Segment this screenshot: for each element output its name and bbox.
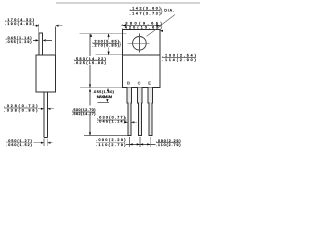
svg-text:.055(1.39): .055(1.39) (6, 40, 32, 44)
dim T1 arrows (35, 25, 63, 27)
vertical dimension line V2/V4 (89, 34, 92, 136)
dim T2 text .045/.055 (6, 36, 32, 44)
side view tab back extension line (54, 27, 56, 56)
svg-text:.270(6.85): .270(6.85) (92, 44, 119, 48)
mounting hole (133, 37, 147, 51)
width dim text (122, 22, 163, 32)
front view extension line A (top, to the left) (80, 33, 127, 35)
svg-text:MAXIMUM: MAXIMUM (97, 95, 112, 99)
dim maximum (93, 88, 114, 103)
dim T4 arrows and extensions (34, 139, 53, 146)
lead center extension lines (129, 137, 131, 147)
dim V2 text body height (74, 57, 106, 65)
front view body (123, 30, 160, 88)
dim V4 text lead length (72, 108, 96, 116)
dim T4 text at lead tip (6, 139, 32, 147)
lead tip extension line (84, 135, 128, 137)
side view tab (39, 33, 43, 55)
lead width dim (97, 116, 137, 124)
svg-text:.060(1.52): .060(1.52) (6, 143, 32, 147)
side view front extension line (38, 24, 40, 33)
hole crosshairs (127, 42, 149, 44)
svg-text:C: C (138, 80, 141, 85)
svg-text:.055(1.40): .055(1.40) (93, 90, 114, 94)
svg-text:E: E (148, 80, 151, 85)
pitch dim line (126, 143, 156, 145)
side view body (36, 55, 55, 92)
svg-text:.625(15.88): .625(15.88) (74, 61, 106, 65)
svg-text:DIA.: DIA. (164, 9, 174, 13)
pitch text P1 (96, 138, 126, 147)
front view leads (127, 88, 152, 136)
front view bottom extension line (80, 87, 123, 89)
dim T1 text .170/.190 (5, 18, 34, 26)
lead labels B C E (127, 80, 151, 85)
dim right side tab offset (162, 54, 196, 62)
dim T3 arrows (38, 108, 54, 110)
svg-text:.110(2.79): .110(2.79) (156, 143, 181, 147)
top rule (56, 2, 200, 4)
tab/plastic boundary (123, 54, 160, 56)
pitch text P2 (156, 139, 181, 147)
svg-text:.562(14.27): .562(14.27) (72, 112, 96, 116)
dim V1 tab height (92, 34, 121, 55)
svg-text:.045(1.14): .045(1.14) (97, 120, 125, 124)
svg-text:}: } (119, 41, 121, 48)
dim T2 arrows (33, 39, 52, 41)
svg-text:B: B (127, 80, 130, 85)
side view lead (44, 92, 47, 138)
front view extension line B (tab boundary, to the left) (96, 54, 123, 56)
svg-text:.090(2.29): .090(2.29) (96, 138, 126, 142)
svg-text:.170(4.32): .170(4.32) (5, 18, 34, 22)
svg-text:}: } (161, 8, 163, 15)
dim T3 text lead thickness (4, 104, 38, 112)
hole dia text (130, 7, 175, 37)
svg-text:.190(4.83): .190(4.83) (5, 22, 34, 26)
